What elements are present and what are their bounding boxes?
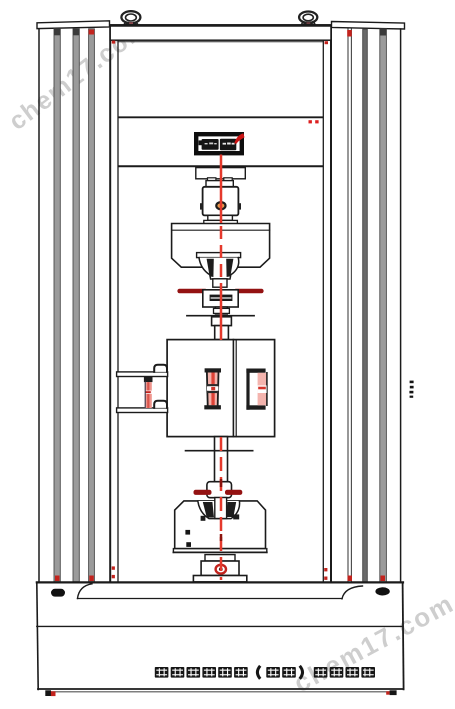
eyebolt left: [124, 21, 137, 24]
upper grip jaw left: [207, 259, 214, 277]
upper grip box: [172, 224, 270, 268]
lower mount block: [201, 561, 239, 576]
load cell side tabs: [200, 203, 203, 209]
eyebolt right: [302, 21, 315, 24]
dimension tick marks right of column: [410, 381, 414, 384]
lower grip jaw left: [203, 502, 214, 518]
lower mount eye: [216, 565, 226, 574]
right column guide bar 3: [380, 29, 387, 582]
rack specimen: [144, 377, 153, 383]
red dot below beam right: [325, 41, 328, 44]
red center axis line dashed lower: [220, 437, 223, 580]
adapter plate: [204, 220, 238, 223]
rack bar top: [117, 372, 168, 377]
dark red dash overlays: [220, 479, 223, 487]
base seam line: [78, 598, 343, 600]
left specimen side edges: [206, 373, 209, 406]
base right curve: [342, 586, 363, 599]
right specimen spine: [246, 369, 249, 410]
left column guide bar 2: [73, 29, 79, 582]
left specimen caps: [205, 368, 221, 372]
upper grip jaw right: [226, 259, 233, 277]
load cell body: [203, 187, 239, 216]
pull rod upper: [215, 326, 229, 340]
dark caps on left bars: [54, 29, 60, 36]
thin crossbar upper: [187, 315, 254, 317]
chamber divider: [232, 340, 234, 437]
top beam: [110, 25, 331, 40]
right specimen caps: [246, 369, 265, 373]
upper grip bell plate: [197, 253, 241, 258]
lower coupler: [207, 482, 232, 498]
red center axis line upper: [220, 155, 223, 224]
inner upright right: [322, 41, 324, 582]
beam lower double line: [118, 41, 323, 43]
red cap top of right groove: [347, 30, 352, 37]
upper grip bell: [199, 258, 239, 279]
red cap bottom of right groove: [348, 576, 353, 582]
left column right edge: [109, 29, 111, 582]
lower handle right: [225, 490, 242, 495]
rack hook bottom: [154, 401, 167, 408]
lower box screws: [185, 530, 190, 535]
load cell center boss: [216, 202, 225, 209]
right specimen pink bar: [258, 373, 267, 406]
text blob texture: [156, 668, 373, 676]
upper grip throat: [213, 279, 227, 287]
inner upright left: [117, 40, 119, 581]
rack bar bottom: [117, 408, 168, 413]
crosshead mount block: [196, 168, 246, 179]
red cap bottom of left bar 3: [89, 576, 94, 582]
left column left edge: [38, 29, 40, 582]
left specimen middle bands: [206, 384, 218, 386]
base bottom edge: [38, 688, 404, 690]
upper clamp box: [203, 290, 238, 307]
display panel frame: [196, 134, 242, 153]
red dots on crosshead right: [309, 120, 312, 123]
double red dots left upright bottom: [112, 566, 115, 569]
lower handle left: [194, 490, 212, 495]
panel left tab: [199, 140, 202, 145]
moving crosshead bottom edge: [119, 165, 322, 167]
left column cap: [37, 21, 110, 29]
clamp neck: [215, 307, 227, 314]
company name text blobs: [155, 666, 375, 679]
right column guide bar 2: [363, 29, 368, 582]
base seam line 2: [37, 625, 403, 627]
red dot below beam left: [112, 41, 115, 44]
upper handle right: [234, 289, 264, 293]
left column guide bar 1: [54, 29, 60, 582]
moving crosshead top edge: [119, 116, 322, 118]
base bolt slot left: [51, 589, 65, 597]
right column cap: [332, 22, 405, 30]
double red dots right upright bottom: [324, 568, 327, 571]
watermark bottom-right chem17.com: [289, 588, 455, 699]
chamber box: [167, 340, 275, 437]
lower grip feet: [201, 516, 206, 521]
display panel right screen: [220, 139, 236, 150]
right column groove line b: [350, 29, 352, 582]
left column guide bar 3: [89, 29, 95, 582]
red center axis line dashed mid: [220, 226, 223, 284]
red cap bottom of right bar 3: [381, 576, 386, 582]
panel red swoosh: [234, 133, 244, 144]
foot left: [45, 690, 51, 696]
load cell top flange bumps: [208, 178, 216, 181]
lower base plate: [193, 576, 246, 582]
upper handle left: [177, 289, 207, 293]
base left edge: [37, 582, 38, 689]
load cell bottom flange: [208, 215, 233, 220]
foot right: [386, 691, 389, 694]
watermark top-left chem17.com: [4, 13, 154, 136]
lower grip jaw right: [226, 502, 236, 517]
pull rod lower: [215, 437, 228, 482]
base bolt slot right: [375, 587, 389, 595]
lower grip bell: [198, 501, 240, 519]
coupling: [212, 317, 232, 326]
rack hook top: [154, 365, 167, 372]
left specimen body pink: [207, 373, 218, 406]
base left curve: [78, 584, 93, 599]
red cap bottom of left bar 1: [55, 576, 60, 582]
red cap top of left bar 3: [89, 30, 95, 35]
base top edge: [37, 581, 403, 583]
base right edge: [403, 582, 404, 689]
thin crossbar lower: [186, 450, 253, 452]
lower mount plate: [205, 555, 235, 561]
upper clamp insert: [210, 295, 233, 301]
lower grip box: [175, 501, 266, 549]
right column groove line a: [347, 29, 349, 582]
display panel left screen: [202, 139, 219, 150]
lower grip throat: [215, 498, 227, 519]
screen digits: [205, 143, 208, 144]
right column right edge: [400, 29, 402, 582]
load cell top flange: [206, 181, 233, 187]
right column left edge: [330, 28, 332, 583]
